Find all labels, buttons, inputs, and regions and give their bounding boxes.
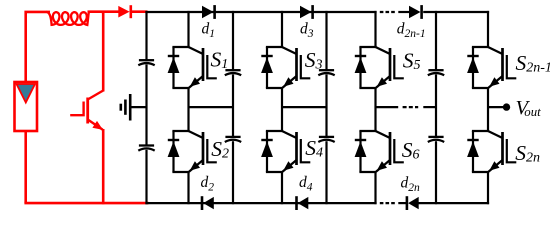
- transistor Q gate bar and lead (red): [70, 102, 83, 116]
- diode S3 antiparallel branch wire: [266, 47, 268, 88]
- diode S6 antiparallel triangle: [355, 141, 367, 157]
- diode d2n-1 cathode bar: [420, 5, 423, 19]
- transistor S1 main bar: [202, 48, 205, 81]
- wire leg S6 bottom stub: [374, 172, 376, 205]
- transistor S2n-1 emitter arrow: [489, 77, 499, 87]
- transistor S1 emitter lead: [189, 76, 203, 88]
- wire leg S2n bottom stub: [487, 172, 489, 205]
- wire leg S1 top stub: [187, 11, 189, 48]
- wire bottom rail before d2n: [398, 202, 407, 204]
- diode d1 cathode bar: [213, 5, 216, 19]
- wire input rail lower: [145, 150, 147, 204]
- diode D input (red) triangle: [118, 6, 129, 18]
- diode S2n-1 antiparallel cathode bar: [467, 55, 478, 57]
- transistor Q boost switch (red) collector wire: [102, 12, 105, 92]
- capacitor Cn-bottom top plate: [428, 136, 443, 138]
- transistor S2n collector lead: [488, 131, 503, 138]
- wire Cn rail lower: [435, 141, 437, 204]
- transistor S3 emitter arrow: [283, 77, 293, 87]
- transistor S5 collector lead: [376, 47, 391, 54]
- wire bottom rail dashed break: [380, 202, 396, 204]
- diode S6 antiparallel branch wire: [359, 131, 361, 172]
- diode S5 antiparallel triangle: [355, 57, 367, 73]
- diode S4 antiparallel branch wire: [266, 131, 268, 172]
- diode d4 triangle: [298, 197, 309, 209]
- transistor S3 main bar: [295, 48, 298, 81]
- diode S1 antiparallel triangle: [168, 57, 180, 73]
- capacitor Cn-top top plate: [428, 69, 443, 71]
- transistor S4 emitter arrow: [283, 161, 293, 171]
- transistor Q collector lead (red): [88, 91, 104, 100]
- capacitor C2-top top plate: [319, 69, 334, 71]
- transistor S4 collector lead: [282, 131, 297, 138]
- diode S3 antiparallel cathode bar: [261, 55, 272, 57]
- diode S2n-1 antiparallel triangle: [467, 57, 479, 73]
- wire input rail upper: [145, 11, 147, 60]
- transistor S2n-1 main bar: [501, 48, 504, 81]
- wire S1 bottom link: [172, 87, 189, 89]
- wire mid link stage1: [188, 106, 235, 108]
- wire C2 rail middle: [325, 75, 327, 137]
- wire leg S4 bottom stub: [281, 172, 283, 205]
- diode S3 antiparallel triangle: [261, 57, 273, 73]
- wire bottom rail right section: [418, 202, 489, 204]
- diode S2 antiparallel branch wire: [172, 131, 174, 172]
- transistor S2 gate bar and lead: [207, 139, 217, 162]
- diode d2n-1 triangle: [409, 6, 421, 18]
- transistor S4 emitter lead: [283, 160, 297, 172]
- diode S2n antiparallel triangle: [467, 141, 479, 157]
- transistor S3 emitter lead: [283, 76, 297, 88]
- diode S5 antiparallel branch wire: [359, 47, 361, 88]
- wire mid link stage2: [281, 106, 328, 108]
- diode d2 triangle: [203, 197, 214, 209]
- ground symbol: [129, 94, 132, 121]
- diode D input (red) cathode bar: [130, 5, 133, 18]
- wire diode to input rail (red): [131, 10, 148, 13]
- transistor S2 emitter arrow: [190, 161, 200, 171]
- transistor S5 emitter lead: [376, 76, 390, 88]
- inductor L (red coil): [46, 12, 90, 25]
- transistor S6 gate bar and lead: [394, 139, 404, 162]
- wire S6 bottom link: [359, 171, 376, 173]
- transistor S2n main bar: [501, 132, 504, 165]
- wire bottom return (red): [24, 202, 148, 205]
- node collector junction (red): [102, 12, 105, 14]
- capacitor Cn-bottom curved plate: [428, 140, 444, 142]
- capacitor Cn-top curved plate: [428, 73, 444, 75]
- diode S2 antiparallel triangle: [168, 141, 180, 157]
- transistor S3 collector lead: [282, 47, 297, 54]
- diode S5 antiparallel cathode bar: [355, 55, 366, 57]
- diode d2n triangle: [408, 197, 419, 209]
- diode S2n-1 antiparallel branch wire: [472, 47, 474, 88]
- transistor S2n-1 gate bar and lead: [507, 55, 517, 78]
- wire S2n-1 top link: [472, 46, 489, 48]
- wire C1 rail middle: [232, 75, 234, 137]
- capacitor C1-bottom top plate: [225, 136, 240, 138]
- transistor Q main bar (red): [86, 98, 89, 124]
- transistor S2n-1 collector lead: [488, 47, 503, 54]
- diode S1 antiparallel branch wire: [172, 47, 174, 88]
- wire C2 rail upper: [325, 11, 327, 70]
- capacitor C1-top curved plate: [225, 73, 241, 75]
- wire ground to input rail: [130, 106, 146, 108]
- wire Cn rail middle: [435, 75, 437, 137]
- wire emitter down (red): [102, 129, 105, 204]
- capacitor C1-bottom curved plate: [225, 140, 241, 142]
- wire leg S5 top stub: [374, 11, 376, 48]
- wire leg S2n-1 top stub: [487, 11, 489, 48]
- capacitor Cin-top curved plate: [138, 63, 154, 65]
- wire S2n top link: [472, 130, 489, 132]
- wire top rail left section: [145, 11, 376, 13]
- transistor S6 collector lead: [376, 131, 391, 138]
- wire Cn rail upper: [435, 11, 437, 70]
- transistor Q emitter lead (red): [88, 120, 103, 130]
- diode d4 cathode bar: [295, 196, 298, 210]
- diode d2n cathode bar: [406, 196, 409, 210]
- diode S4 antiparallel triangle: [261, 141, 273, 157]
- wire S6 top link: [359, 130, 376, 132]
- wire S5 bottom link: [359, 87, 376, 89]
- transistor S4 main bar: [295, 132, 298, 165]
- capacitor C2-bottom top plate: [319, 136, 334, 138]
- wire S3 bottom link: [266, 87, 283, 89]
- transistor S2n emitter lead: [489, 160, 503, 172]
- transistor S2 emitter lead: [189, 160, 203, 172]
- diode d3 cathode bar: [311, 5, 314, 19]
- node Vout dot: [503, 103, 510, 110]
- diode S2 antiparallel cathode bar: [168, 139, 179, 141]
- transistor S6 emitter lead: [376, 160, 390, 172]
- wire top rail right section: [423, 11, 489, 13]
- PV source triangle: [17, 84, 36, 103]
- wire C1 rail upper: [232, 11, 234, 70]
- transistor S2n-1 emitter lead: [489, 76, 503, 88]
- wire S1 top link: [172, 46, 189, 48]
- wire leg S3-S4 mid stub: [281, 88, 283, 132]
- transistor S5 emitter arrow: [377, 77, 387, 87]
- PV source box: [15, 82, 38, 131]
- capacitor Cin-bottom curved plate: [138, 148, 154, 150]
- capacitor C2-top curved plate: [318, 73, 334, 75]
- wire leg S2n-1-S2n mid stub: [487, 88, 489, 132]
- wire S2 bottom link: [172, 171, 189, 173]
- transistor S1 collector lead: [189, 47, 204, 54]
- wire top rail before d2n-1: [398, 11, 409, 13]
- wire mid link stage3 dashed break: [403, 106, 419, 108]
- svg-text:out: out: [524, 105, 541, 119]
- wire output stub: [487, 106, 505, 108]
- wire S4 top link: [266, 130, 283, 132]
- transistor S6 emitter arrow: [377, 161, 387, 171]
- diode d1 triangle: [202, 6, 214, 18]
- transistor S1 emitter arrow: [190, 77, 200, 87]
- wire mid link stage3 right: [423, 106, 437, 108]
- wire S4 bottom link: [266, 171, 283, 173]
- capacitor Cin-top top plate: [139, 59, 154, 61]
- wire source bottom (red): [24, 131, 27, 203]
- transistor S5 gate bar and lead: [394, 55, 404, 78]
- wire C1 rail lower: [232, 141, 234, 204]
- capacitor C2-bottom curved plate: [318, 140, 334, 142]
- wire input rail middle: [145, 65, 147, 146]
- wire S5 top link: [359, 46, 376, 48]
- diode S1 antiparallel cathode bar: [168, 55, 179, 57]
- wire S2n-1 bottom link: [472, 87, 489, 89]
- diode S2n antiparallel cathode bar: [467, 139, 478, 141]
- wire leg S5-S6 mid stub: [374, 88, 376, 132]
- transistor S6 main bar: [389, 132, 392, 165]
- transistor S1 gate bar and lead: [207, 55, 217, 78]
- capacitor Cin-bottom top plate: [139, 144, 154, 146]
- wire source to top-left corner (red): [26, 12, 50, 82]
- diode S2n antiparallel branch wire: [472, 131, 474, 172]
- wire C2 rail lower: [325, 141, 327, 204]
- transistor S4 gate bar and lead: [301, 139, 311, 162]
- capacitor C1-top top plate: [225, 69, 240, 71]
- wire S2 top link: [172, 130, 189, 132]
- wire leg S3 top stub: [281, 11, 283, 48]
- transistor S2 collector lead: [189, 131, 204, 138]
- transistor S2n gate bar and lead: [507, 139, 517, 162]
- transistor S5 main bar: [389, 48, 392, 81]
- transistor S2 main bar: [202, 132, 205, 165]
- diode d3 triangle: [300, 6, 312, 18]
- wire bottom rail left section: [145, 202, 376, 204]
- transistor Q emitter arrow (red): [92, 121, 103, 130]
- wire mid link stage3 left: [375, 106, 399, 108]
- transistor S2n emitter arrow: [489, 161, 499, 171]
- wire leg S1-S2 mid stub: [187, 88, 189, 132]
- wire inductor to diode (red): [88, 10, 119, 13]
- wire top rail dashed break: [380, 11, 396, 13]
- wire S3 top link: [266, 46, 283, 48]
- wire S2n bottom link: [472, 171, 489, 173]
- wire leg S2 bottom stub: [187, 172, 189, 205]
- diode S6 antiparallel cathode bar: [355, 139, 366, 141]
- transistor S3 gate bar and lead: [301, 55, 311, 78]
- diode S4 antiparallel cathode bar: [261, 139, 272, 141]
- diode d2 cathode bar: [201, 196, 204, 210]
